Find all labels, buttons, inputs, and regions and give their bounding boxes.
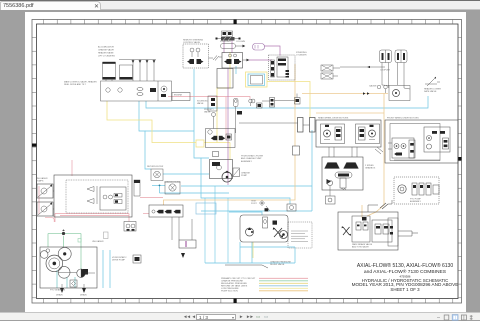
svg-text:CHARGE VALVE: CHARGE VALVE: [98, 49, 114, 52]
svg-text:PUMP: PUMP: [241, 175, 248, 177]
svg-text:AXIAL-FLOW® 5130, AXIAL-FLOW®: AXIAL-FLOW® 5130, AXIAL-FLOW® 6130: [357, 262, 454, 269]
svg-text:MAIN CONTROL VALVE, HEADER: MAIN CONTROL VALVE, HEADER: [64, 81, 97, 84]
svg-text:PUMP SUCTION: PUMP SUCTION: [221, 291, 238, 293]
svg-text:ASSEMBLY: ASSEMBLY: [410, 200, 422, 203]
svg-text:FRONT WHEEL DRIVE MOTORS: FRONT WHEEL DRIVE MOTORS: [387, 117, 419, 119]
svg-text:HEADER RAISE: HEADER RAISE: [98, 52, 114, 55]
svg-text:REAR WHEEL DRIVE MOTORS: REAR WHEEL DRIVE MOTORS: [318, 116, 349, 119]
svg-text:ENGINE: ENGINE: [174, 94, 183, 96]
svg-text:ACCUMULATOR: ACCUMULATOR: [98, 46, 114, 49]
svg-text:LIFT CYLINDERS: LIFT CYLINDERS: [98, 56, 115, 58]
svg-text:DRAIN: DRAIN: [80, 293, 87, 296]
svg-text:CHARGE: CHARGE: [241, 172, 251, 175]
svg-text:CONTROL VALVE: CONTROL VALVE: [183, 41, 201, 44]
svg-text:AND CHARGE PUMP: AND CHARGE PUMP: [241, 157, 262, 160]
svg-text:RETURN FILTER: RETURN FILTER: [147, 166, 164, 168]
svg-text:UNLOADER: UNLOADER: [36, 177, 48, 180]
svg-text:REMOTE STEERING: REMOTE STEERING: [183, 40, 203, 42]
svg-text:STEERING: STEERING: [296, 52, 307, 54]
svg-text:CHARGE FILTER: CHARGE FILTER: [164, 180, 181, 183]
svg-text:STEERING: STEERING: [220, 41, 231, 43]
svg-text:AND TOW VALVE: AND TOW VALVE: [352, 246, 369, 249]
svg-text:PARK BRAKE VALVE: PARK BRAKE VALVE: [352, 243, 373, 246]
svg-text:DRIVE PUMP: DRIVE PUMP: [112, 260, 126, 262]
svg-text:CYLINDER: CYLINDER: [296, 55, 307, 57]
svg-text:PORT: PORT: [251, 203, 257, 205]
svg-text:COUPLER: COUPLER: [380, 70, 391, 72]
svg-text:VALVE: VALVE: [197, 102, 204, 105]
svg-text:GEARBOX: GEARBOX: [365, 167, 376, 170]
svg-text:CHARGE PRESSURE: CHARGE PRESSURE: [270, 261, 292, 264]
svg-text:PTO GEARBOX: PTO GEARBOX: [50, 288, 66, 291]
svg-text:SOLENOID: SOLENOID: [197, 101, 208, 103]
svg-text:SHEET 1 OF 3: SHEET 1 OF 3: [390, 287, 420, 292]
svg-text:UNLOADER: UNLOADER: [92, 240, 104, 243]
svg-text:VALVE: VALVE: [204, 111, 211, 114]
svg-text:GAUGE: GAUGE: [369, 85, 377, 88]
svg-text:DRAIN: DRAIN: [56, 293, 63, 296]
svg-text:RATE VALVE: RATE VALVE: [424, 90, 437, 93]
svg-text:HYDROSTATIC: HYDROSTATIC: [112, 256, 127, 259]
svg-text:ASSEMBLY: ASSEMBLY: [241, 160, 253, 163]
svg-text:RELIEF VALVE: RELIEF VALVE: [270, 263, 285, 266]
svg-text:COLUMN: COLUMN: [236, 41, 246, 43]
svg-text:HYDROSTATIC FILTER: HYDROSTATIC FILTER: [241, 155, 264, 158]
svg-text:REEL DRIVE AND TILT: REEL DRIVE AND TILT: [64, 83, 87, 86]
svg-text:PUMPS: PUMPS: [36, 181, 44, 183]
